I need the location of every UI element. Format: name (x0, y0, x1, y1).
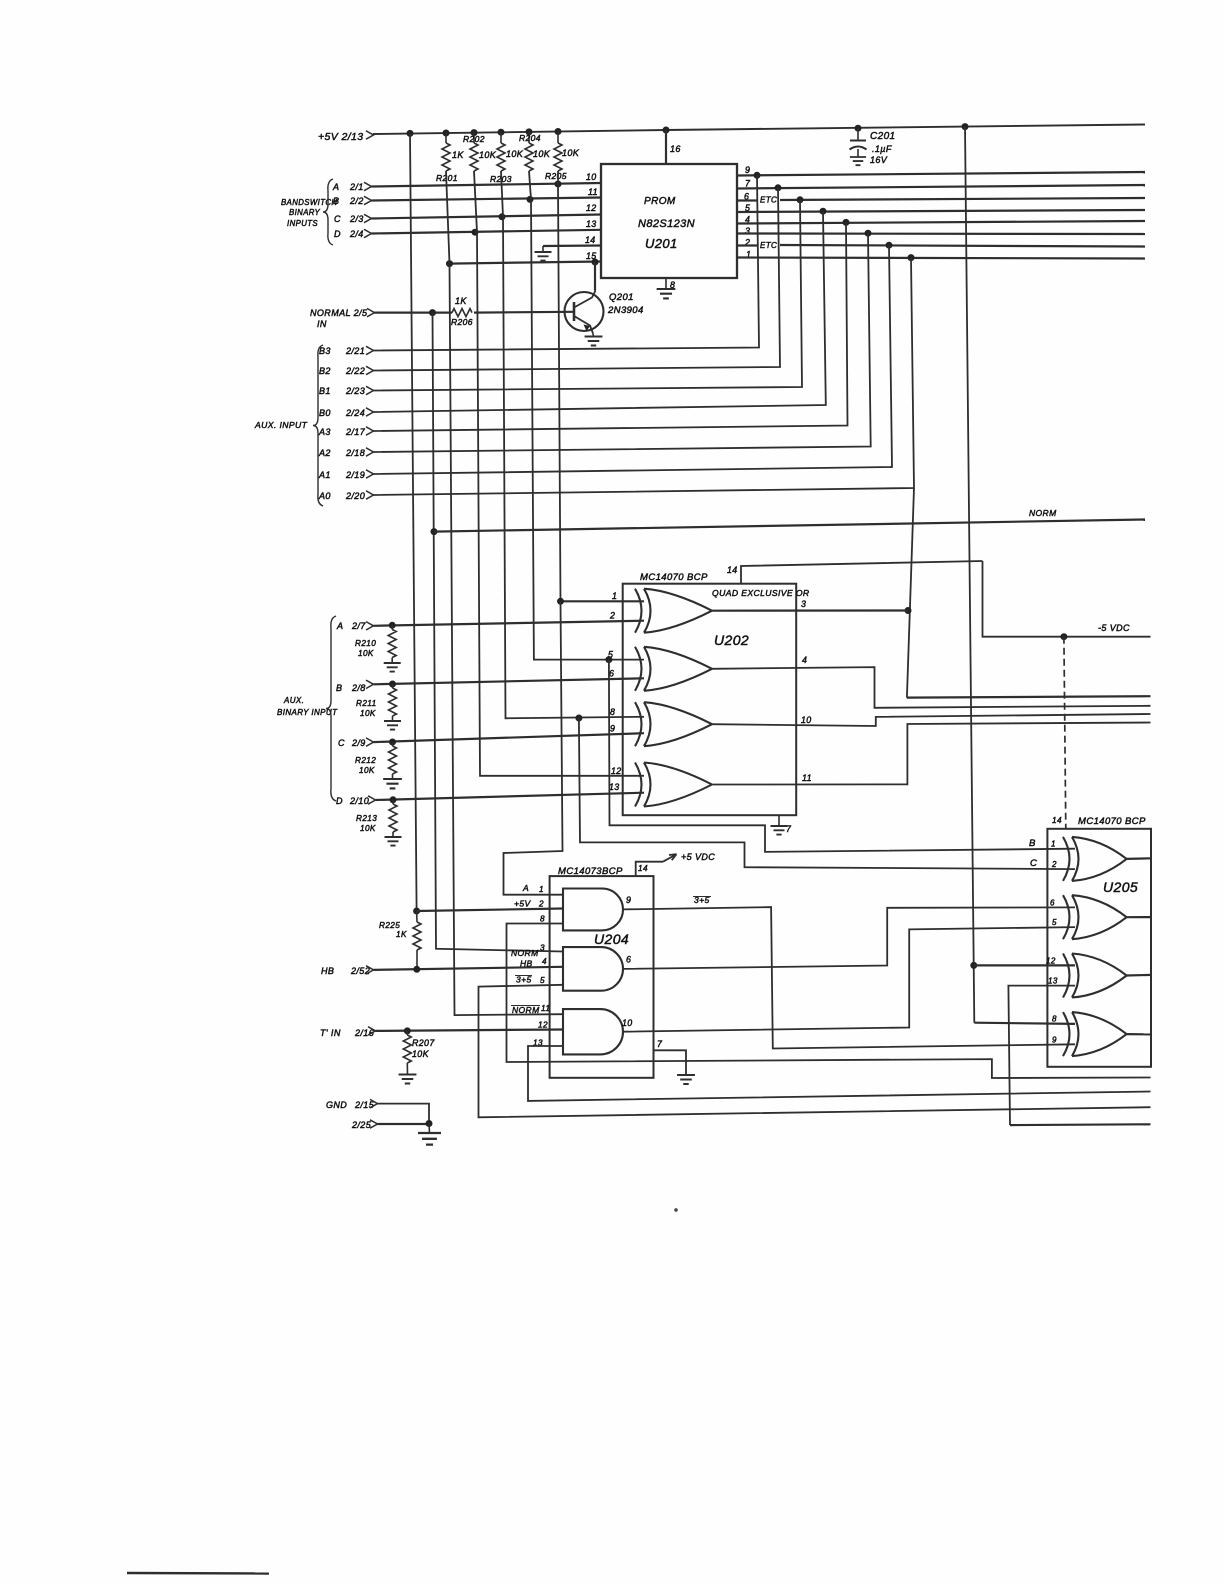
svg-text:U205: U205 (1103, 879, 1138, 895)
wire R202 column to U202 pin 12 (474, 171, 644, 776)
wire A row to PROM pin 10 (372, 183, 602, 187)
wire B1 row to PROM column (374, 200, 803, 391)
wire R203 column to U202 pin 8 (501, 171, 644, 718)
svg-text:12: 12 (611, 766, 622, 776)
op U205 XOR gate A pins 1,2 out 3 (1063, 837, 1127, 881)
svg-text:B: B (336, 683, 342, 693)
svg-text:2: 2 (538, 900, 544, 909)
svg-text:8: 8 (610, 707, 615, 717)
wire PROM pin 1 row (737, 258, 1145, 259)
wire GND 2/15 row (378, 1104, 430, 1124)
svg-text:C: C (1030, 858, 1037, 869)
svg-text:9: 9 (1052, 1036, 1057, 1045)
svg-text:11: 11 (588, 187, 598, 197)
ground at PROM pin 14 (543, 244, 601, 247)
svg-text:5: 5 (1052, 918, 1057, 927)
svg-text:12: 12 (586, 203, 597, 213)
svg-text:2/17: 2/17 (345, 427, 366, 437)
wire A2 row to PROM column (374, 233, 871, 452)
transistor Q201 2N3904 (565, 292, 604, 331)
wire line Ld to right edge (1010, 1123, 1151, 1126)
svg-text:1K: 1K (452, 150, 464, 160)
wire U205 pin 12 feed (974, 964, 1075, 966)
svg-text:2/19: 2/19 (345, 470, 365, 480)
svg-text:R204: R204 (519, 133, 541, 143)
svg-text:11: 11 (802, 773, 812, 783)
svg-text:12: 12 (1046, 957, 1056, 966)
svg-text:2/52: 2/52 (350, 966, 370, 976)
svg-text:2/4: 2/4 (349, 229, 364, 239)
svg-text:R213: R213 (356, 814, 377, 823)
footer rule (127, 1572, 269, 1575)
svg-text:1: 1 (612, 591, 617, 601)
svg-text:2: 2 (609, 611, 615, 621)
capacitor C201 .1uF 16V (857, 128, 859, 140)
wire A3 row to PROM column (374, 222, 848, 431)
svg-text:Q201: Q201 (609, 292, 634, 303)
svg-text:U202: U202 (714, 632, 749, 648)
wire PROM pin 3 row (737, 232, 1145, 235)
wire PROM pin 9 row (737, 172, 1145, 176)
svg-text:R207: R207 (412, 1038, 435, 1048)
svg-text:A1: A1 (318, 470, 331, 480)
wire U204 pin 5 riser and line Lc to right (479, 985, 1151, 1118)
resistor R212 10K pulldown (392, 742, 394, 746)
op U204 AND gate B pins 3,4,5 out 6 (563, 947, 623, 991)
svg-text:14: 14 (585, 235, 596, 245)
op U205 XOR gate D pins 8,9 out 10 (1063, 1012, 1127, 1056)
svg-text:4: 4 (802, 655, 807, 665)
svg-text:7: 7 (786, 824, 792, 834)
wire D row to PROM pin 13 (372, 230, 602, 234)
op U202 XOR gate B pins 5,6 out 4 (635, 647, 712, 691)
svg-text:R211: R211 (356, 699, 377, 708)
wire PROM pin1/A0 column down to bus1 (907, 488, 914, 698)
ground at GND input (428, 1124, 431, 1134)
wire U205 pin 13 riser from line Ld (1008, 986, 1075, 1126)
wire B row to PROM pin 11 (372, 198, 602, 201)
wire Q201 collector to PROM pin 15 (594, 262, 596, 291)
svg-text:1: 1 (1051, 840, 1056, 849)
svg-text:13: 13 (586, 219, 597, 229)
resistor R210 10K pulldown (391, 625, 393, 629)
svg-text:10K: 10K (479, 150, 497, 160)
svg-text:B3: B3 (319, 346, 331, 356)
svg-text:2/23: 2/23 (345, 386, 365, 396)
wire U204 pin 10 output to U205 pin 5 (623, 927, 1075, 1032)
svg-text:R212: R212 (355, 756, 376, 765)
wire long +5V vertical x410 down to U204 pin 2 area (410, 133, 417, 911)
svg-text:.1µF: .1µF (872, 144, 892, 154)
svg-text:+5V: +5V (514, 899, 531, 909)
svg-text:T' IN: T' IN (320, 1028, 341, 1038)
resistor R203 10K (500, 132, 502, 143)
wire U204 pin 8 riser and line La to right (507, 924, 1151, 1079)
svg-text:3: 3 (801, 599, 806, 609)
resistor R213 10K pulldown (392, 800, 394, 804)
resistor R225 1K pullup on HB (413, 908, 420, 915)
svg-text:+5 VDC: +5 VDC (681, 852, 715, 862)
wire NORM branch vertical from NORMAL line to U204 pin 3 (433, 313, 564, 952)
svg-text:10K: 10K (506, 149, 524, 159)
wire NORMAL row (375, 312, 453, 314)
svg-text:ETC: ETC (760, 196, 777, 205)
wire A1 row to PROM column (374, 245, 893, 474)
svg-text:2/15: 2/15 (354, 1100, 375, 1110)
wire riser to U205 pin 14 (1064, 637, 1066, 829)
svg-text:2N3904: 2N3904 (607, 305, 644, 316)
svg-text:9: 9 (745, 165, 750, 175)
svg-text:A3: A3 (318, 427, 331, 437)
svg-text:A: A (336, 621, 343, 631)
svg-text:2/25: 2/25 (351, 1120, 372, 1130)
wire B branch from pin5 junction to U205 pin 1 (609, 660, 1075, 852)
svg-text:A0: A0 (318, 491, 331, 501)
wire U204 pin 9 output to U205 pin 9 (623, 907, 1075, 1048)
svg-text:1K: 1K (455, 296, 467, 306)
wire R206 to Q201 base (474, 311, 574, 314)
wire T IN row to U204 pin 12 (376, 1030, 564, 1031)
svg-text:3: 3 (540, 944, 545, 953)
resistor R205 10K (557, 132, 559, 144)
resistor R204 10K (528, 132, 530, 143)
speck (675, 1209, 677, 1211)
svg-text:NORM: NORM (511, 948, 539, 958)
wire B0 row to PROM column (374, 211, 826, 412)
svg-text:2/2: 2/2 (349, 196, 364, 206)
svg-text:R210: R210 (355, 639, 376, 648)
IC U205 MC14070BCP box (1047, 829, 1151, 1067)
wire U202 pin 14 stub to -5VDC rail (741, 561, 983, 584)
svg-text:B0: B0 (319, 408, 331, 418)
svg-text:A2: A2 (318, 448, 331, 458)
wire D 2/10 row to U202 pin 13 (376, 793, 645, 800)
wire C branch from pin8 junction to U205 pin 2 (579, 718, 1075, 869)
svg-text:2/1: 2/1 (349, 182, 364, 192)
svg-text:A: A (332, 182, 339, 192)
svg-text:MC14070 BCP: MC14070 BCP (640, 572, 708, 583)
wire U205 outputs to right edge (1127, 857, 1152, 860)
svg-text:11: 11 (541, 1004, 550, 1013)
svg-text:2/24: 2/24 (345, 408, 365, 418)
svg-text:13: 13 (609, 782, 620, 792)
wire +5V rail (373, 125, 1145, 135)
wire -5VDC rail (983, 561, 1151, 637)
wire NORM long line to right edge (434, 520, 1145, 532)
wire PROM pin 6 row with ETC (737, 199, 757, 201)
wire U202 pin 11 output to bus4 (712, 723, 1151, 785)
svg-text:B: B (333, 196, 339, 206)
svg-text:16: 16 (670, 144, 681, 154)
svg-text:U204: U204 (594, 931, 629, 947)
svg-text:6: 6 (1050, 899, 1055, 908)
resistor R206 1K horizontal (452, 309, 472, 317)
wire HB row to U204 pin 4 (374, 967, 564, 970)
svg-text:INPUTS: INPUTS (287, 219, 318, 228)
svg-text:9: 9 (626, 895, 631, 905)
svg-text:NORM: NORM (512, 1005, 540, 1015)
op U205 XOR gate C pins 12,13 out 11 (1063, 954, 1127, 998)
svg-text:2/3: 2/3 (349, 214, 364, 224)
wire PROM pin 15 line (449, 262, 602, 264)
wire R201 column down to U204 pin 11 (446, 171, 563, 1015)
wire bus1 to right edge (907, 696, 1151, 697)
svg-text:R225: R225 (379, 921, 400, 930)
wire A 2/7 row to U202 pin 2 (374, 621, 645, 626)
svg-text:A: A (522, 883, 529, 893)
ground at Q201 emitter (592, 334, 595, 337)
svg-text:2/8: 2/8 (351, 683, 366, 693)
svg-text:GND: GND (326, 1100, 347, 1110)
svg-text:2/10: 2/10 (349, 796, 369, 806)
svg-text:HB: HB (321, 966, 334, 976)
wire PROM pin 7 row (737, 185, 1145, 189)
svg-text:7: 7 (745, 179, 751, 189)
wire PROM pin 16 to +5V (665, 130, 667, 164)
svg-text:4: 4 (542, 957, 547, 966)
resistor R211 10K pulldown (392, 684, 394, 688)
svg-text:R206: R206 (451, 317, 473, 327)
svg-text:8: 8 (670, 280, 675, 290)
svg-text:AUX.: AUX. (283, 696, 304, 705)
resistor R207 10K (406, 1031, 408, 1035)
svg-text:B2: B2 (319, 366, 331, 376)
svg-text:2/18: 2/18 (345, 448, 365, 458)
ground at PROM pin 8 (665, 278, 667, 289)
svg-text:MC14070 BCP: MC14070 BCP (1078, 816, 1146, 827)
svg-text:14: 14 (638, 864, 648, 873)
wire B 2/8 row to U202 pin 6 (374, 678, 645, 684)
svg-text:D: D (334, 229, 341, 239)
svg-text:+5V 2/13: +5V 2/13 (318, 131, 364, 143)
svg-text:B: B (1029, 838, 1036, 849)
wire PROM pin 4 row (737, 221, 1145, 224)
wire U202 pin 4 output to bus2 (712, 667, 1151, 708)
wire U204 pin 14 stub to +5VDC arrow (636, 862, 663, 876)
svg-text:1: 1 (539, 885, 544, 894)
op U204 AND gate A pins 1,2,8 out 9 (563, 889, 623, 931)
svg-text:BINARY: BINARY (289, 208, 321, 217)
wire C row to PROM pin 12 (372, 215, 602, 219)
svg-text:BANDSWITCH: BANDSWITCH (281, 198, 337, 207)
svg-text:U201: U201 (645, 236, 678, 251)
svg-text:10: 10 (801, 715, 812, 725)
wire B2 row to PROM column (374, 188, 781, 371)
junction dots on +5V rail (407, 130, 414, 137)
wire R205/A column to U202 pin 1 and on to U204 pin 1 (558, 171, 561, 601)
wire U202 pin 10 output to bus3 (712, 714, 1151, 726)
svg-text:1K: 1K (396, 930, 407, 939)
svg-text:10: 10 (586, 172, 597, 182)
svg-text:10K: 10K (360, 824, 376, 833)
svg-text:AUX. INPUT: AUX. INPUT (254, 420, 308, 430)
svg-text:8: 8 (540, 915, 545, 924)
svg-text:R202: R202 (463, 134, 485, 144)
op U204 AND gate C pins 11,12,13 out 10 (563, 1009, 623, 1054)
svg-text:10: 10 (622, 1018, 633, 1028)
svg-text:7: 7 (657, 1039, 663, 1049)
svg-text:10K: 10K (358, 649, 374, 658)
wire A0 row to PROM column (374, 258, 915, 495)
svg-text:C201: C201 (870, 131, 896, 142)
svg-text:14: 14 (1052, 816, 1062, 825)
svg-text:10K: 10K (360, 709, 376, 718)
svg-text:N82S123N: N82S123N (638, 218, 695, 230)
svg-text:ETC: ETC (760, 241, 777, 250)
IC U204 MC14073BCP box (550, 876, 654, 1078)
svg-text:D: D (336, 796, 343, 806)
svg-text:8: 8 (1052, 1015, 1057, 1024)
svg-text:14: 14 (727, 565, 738, 575)
svg-text:16V: 16V (870, 155, 888, 165)
IC U202 MC14070BCP box (623, 584, 797, 816)
svg-text:QUAD EXCLUSIVE OR: QUAD EXCLUSIVE OR (712, 588, 810, 598)
svg-text:2/7: 2/7 (351, 621, 366, 631)
wire U205 pin 8 feed (974, 1023, 1075, 1024)
svg-text:2/21: 2/21 (345, 346, 365, 356)
op U205 XOR gate B pins 6,5 out 4 (1063, 895, 1127, 939)
wire long vertical from +5V rail to U205 pins 12/8 (965, 127, 974, 1023)
op U202 XOR gate D pins 12,13 out 11 (635, 763, 712, 807)
svg-text:B1: B1 (319, 386, 331, 396)
wire B3 row to PROM column (374, 175, 760, 350)
svg-text:5: 5 (540, 976, 545, 985)
wire +5V vertical to U204 pin 2 (417, 909, 563, 912)
svg-text:6: 6 (626, 955, 631, 965)
svg-text:-5 VDC: -5 VDC (1098, 623, 1130, 633)
svg-text:NORM: NORM (1029, 508, 1057, 518)
svg-text:2: 2 (1051, 860, 1057, 869)
wire U202 pin 3 output to bus (712, 609, 908, 611)
svg-text:10K: 10K (533, 149, 551, 159)
wire U204 pin 6 output to U205 pin 6 (623, 907, 1075, 969)
ground at U202 pin 7 (778, 815, 780, 826)
op U202 XOR gate C pins 8,9 out 10 (635, 702, 712, 746)
svg-text:12: 12 (538, 1021, 548, 1030)
svg-text:10K: 10K (562, 148, 580, 158)
svg-text:13: 13 (1048, 977, 1058, 986)
node +5 VDC arrow (663, 855, 676, 862)
wire R204 column to U202 pin 5 (529, 171, 644, 660)
resistor R202 10K (473, 133, 475, 143)
svg-text:9: 9 (610, 724, 615, 734)
resistor R201 1K (445, 133, 447, 143)
svg-text:NORMAL 2/5: NORMAL 2/5 (310, 308, 368, 318)
wire C 2/9 row to U202 pin 9 (374, 733, 645, 742)
svg-text:C: C (338, 738, 345, 748)
svg-text:2/20: 2/20 (345, 491, 365, 501)
svg-text:C: C (334, 214, 341, 224)
svg-text:10K: 10K (412, 1049, 430, 1059)
svg-text:R205: R205 (545, 171, 567, 181)
wire PROM pin 5 row (737, 210, 1145, 212)
svg-text:10K: 10K (359, 766, 375, 775)
PROM U201 N82S123N (601, 164, 737, 278)
svg-text:2/22: 2/22 (345, 366, 365, 376)
wire U204 pin 13 riser and line Lb to right (528, 1046, 1151, 1101)
op U202 XOR gate A pins 1,2 out 3 (635, 589, 712, 633)
wire PROM pin 2 row with ETC (737, 244, 757, 246)
svg-text:IN: IN (317, 319, 327, 329)
wire 2/25 row (378, 1123, 430, 1125)
svg-text:MC14073BCP: MC14073BCP (558, 866, 623, 877)
svg-text:PROM: PROM (644, 196, 676, 207)
svg-text:2/9: 2/9 (351, 738, 366, 748)
